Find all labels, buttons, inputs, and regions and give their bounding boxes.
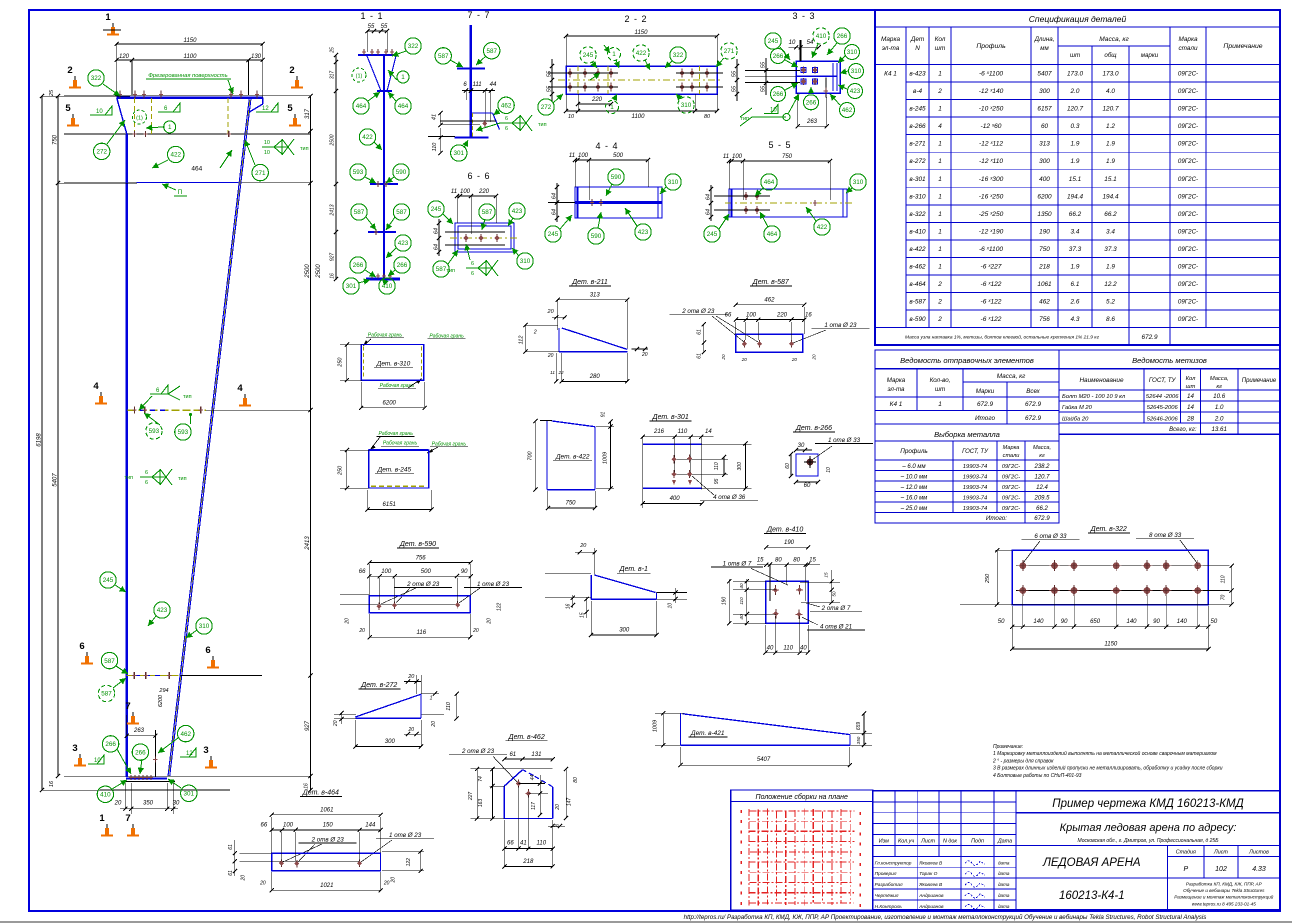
svg-text:19903-74: 19903-74 xyxy=(963,464,988,470)
svg-text:1.9: 1.9 xyxy=(1106,141,1115,148)
svg-text:245: 245 xyxy=(583,52,594,59)
svg-text:-6 ˣ122: -6 ˣ122 xyxy=(981,281,1002,288)
svg-text:40: 40 xyxy=(800,645,807,651)
svg-text:2 отв Ø 7: 2 отв Ø 7 xyxy=(821,605,851,612)
svg-text:300: 300 xyxy=(619,628,630,634)
svg-text:дата: дата xyxy=(998,860,1010,865)
svg-text:Масса,: Масса, xyxy=(1210,376,1229,382)
svg-text:в-271: в-271 xyxy=(909,141,926,148)
svg-text:12: 12 xyxy=(186,751,193,757)
svg-text:1 отв Ø 7: 1 отв Ø 7 xyxy=(723,561,752,568)
svg-text:Примечание: Примечание xyxy=(1223,43,1262,50)
svg-text:1150: 1150 xyxy=(1104,641,1118,647)
svg-text:64: 64 xyxy=(706,209,712,215)
svg-text:54: 54 xyxy=(807,40,814,46)
svg-text:300: 300 xyxy=(737,462,743,471)
svg-text:122: 122 xyxy=(497,603,503,612)
svg-text:462: 462 xyxy=(842,107,853,114)
svg-text:15.1: 15.1 xyxy=(1104,176,1117,183)
svg-text:6: 6 xyxy=(505,126,508,132)
svg-text:422: 422 xyxy=(170,152,181,159)
svg-text:20: 20 xyxy=(811,354,816,361)
svg-text:6 отв Ø 33: 6 отв Ø 33 xyxy=(1034,533,1067,540)
svg-text:3 В размерах длинных изделий: 3 В размерах длинных изделий пропуски не… xyxy=(993,765,1223,772)
svg-text:1: 1 xyxy=(938,228,942,235)
svg-text:Рабочая грань: Рабочая грань xyxy=(368,332,403,338)
svg-text:Рабочая грань: Рабочая грань xyxy=(432,441,467,447)
svg-text:3: 3 xyxy=(72,743,77,754)
svg-text:131: 131 xyxy=(531,752,541,758)
svg-text:310: 310 xyxy=(520,258,531,265)
svg-text:20: 20 xyxy=(114,801,122,807)
svg-text:317: 317 xyxy=(330,71,336,80)
svg-text:6198: 6198 xyxy=(37,433,43,447)
svg-text:Дет. в-322: Дет. в-322 xyxy=(1090,526,1127,533)
svg-text:216: 216 xyxy=(653,429,665,435)
svg-text:Выборка металла: Выборка металла xyxy=(934,430,1000,439)
svg-text:6151: 6151 xyxy=(383,502,396,508)
svg-text:310: 310 xyxy=(681,102,692,109)
svg-text:Крытая ледовая арена по адресу: Крытая ледовая арена по адресу: xyxy=(1060,822,1237,834)
svg-text:2500: 2500 xyxy=(330,134,336,146)
svg-text:66.2: 66.2 xyxy=(1104,211,1117,218)
svg-text:1: 1 xyxy=(430,696,433,702)
svg-text:ГОСТ, ТУ: ГОСТ, ТУ xyxy=(1149,377,1177,384)
svg-text:322: 322 xyxy=(408,43,419,50)
svg-text:15: 15 xyxy=(757,558,764,564)
svg-text:66: 66 xyxy=(359,569,366,575)
svg-text:2 отв Ø 23: 2 отв Ø 23 xyxy=(681,308,715,315)
svg-text:110: 110 xyxy=(678,429,688,435)
svg-text:310: 310 xyxy=(668,179,679,186)
svg-text:66: 66 xyxy=(261,823,268,829)
svg-text:1 отв Ø 23: 1 отв Ø 23 xyxy=(824,322,857,329)
svg-text:09Г2С-: 09Г2С- xyxy=(1002,485,1020,491)
svg-text:(1): (1) xyxy=(136,116,143,122)
svg-text:266: 266 xyxy=(773,53,784,60)
svg-text:310: 310 xyxy=(851,68,862,75)
svg-text:3.4: 3.4 xyxy=(1106,228,1115,235)
svg-text:25: 25 xyxy=(330,47,336,54)
svg-text:1: 1 xyxy=(99,813,105,824)
svg-text:44: 44 xyxy=(530,775,536,781)
svg-text:Гл.конструктор: Гл.конструктор xyxy=(875,860,912,866)
svg-text:310: 310 xyxy=(853,179,864,186)
svg-text:587: 587 xyxy=(354,209,365,216)
svg-text:-12 ˣ112: -12 ˣ112 xyxy=(979,141,1003,148)
svg-text:100: 100 xyxy=(283,823,294,829)
svg-text:55: 55 xyxy=(547,70,553,77)
svg-text:20: 20 xyxy=(407,674,415,680)
svg-text:2500: 2500 xyxy=(305,264,311,279)
svg-text:Спецификация деталей: Спецификация деталей xyxy=(1029,14,1127,24)
svg-text:422: 422 xyxy=(636,50,647,57)
svg-text:16: 16 xyxy=(565,604,571,610)
svg-text:Пример чертежа КМД 160213-КМД: Пример чертежа КМД 160213-КМД xyxy=(1052,798,1243,810)
svg-text:Стадия: Стадия xyxy=(1176,850,1196,856)
svg-text:Лист: Лист xyxy=(920,839,935,845)
svg-text:6: 6 xyxy=(471,271,474,277)
svg-text:300: 300 xyxy=(385,739,396,745)
svg-text:тип: тип xyxy=(300,146,309,152)
svg-text:20: 20 xyxy=(240,875,246,882)
svg-text:Разработал: Разработал xyxy=(875,882,903,888)
svg-text:22: 22 xyxy=(557,370,564,375)
svg-text:Масса, кг: Масса, кг xyxy=(1099,36,1129,43)
svg-text:2 отв Ø 23: 2 отв Ø 23 xyxy=(406,581,440,588)
svg-text:64: 64 xyxy=(706,194,712,200)
svg-text:116: 116 xyxy=(417,630,427,636)
svg-text:10: 10 xyxy=(789,40,796,46)
svg-text:6: 6 xyxy=(145,480,148,486)
svg-text:110: 110 xyxy=(739,597,744,605)
svg-text:Итого:: Итого: xyxy=(986,515,1007,522)
svg-text:266: 266 xyxy=(806,100,817,107)
svg-text:250: 250 xyxy=(338,357,344,368)
svg-text:Марка: Марка xyxy=(881,36,901,43)
svg-text:П: П xyxy=(178,189,183,196)
svg-text:3: 3 xyxy=(203,745,208,756)
svg-text:40: 40 xyxy=(739,583,744,589)
svg-text:10: 10 xyxy=(826,467,832,473)
svg-text:Дет. в-310: Дет. в-310 xyxy=(376,360,411,367)
svg-text:Примечание:: Примечание: xyxy=(993,744,1024,750)
svg-text:2: 2 xyxy=(937,316,942,323)
svg-text:7 - 7: 7 - 7 xyxy=(467,10,490,20)
svg-text:1: 1 xyxy=(612,51,616,58)
svg-text:в-266: в-266 xyxy=(909,123,926,130)
svg-text:5407: 5407 xyxy=(53,473,59,487)
svg-text:1100: 1100 xyxy=(184,54,198,60)
svg-text:750: 750 xyxy=(782,154,793,160)
svg-text:756: 756 xyxy=(1039,316,1050,323)
svg-text:шт: шт xyxy=(935,386,945,393)
svg-text:09Г2С-: 09Г2С- xyxy=(1178,211,1198,218)
svg-text:Дет. в-301: Дет. в-301 xyxy=(652,414,689,421)
svg-text:1150: 1150 xyxy=(184,38,198,44)
svg-text:110: 110 xyxy=(446,701,452,711)
svg-text:2413: 2413 xyxy=(330,204,336,216)
svg-text:11: 11 xyxy=(723,154,729,160)
svg-text:1: 1 xyxy=(168,124,172,131)
svg-text:590: 590 xyxy=(591,233,602,240)
svg-text:672.9: 672.9 xyxy=(1025,401,1041,408)
svg-text:Рабочая грань: Рабочая грань xyxy=(380,383,415,389)
svg-text:Кол: Кол xyxy=(935,36,946,43)
svg-text:в-464: в-464 xyxy=(909,281,926,288)
svg-text:64: 64 xyxy=(434,244,440,250)
svg-text:927: 927 xyxy=(330,253,336,262)
svg-text:20: 20 xyxy=(383,881,390,887)
svg-text:1021: 1021 xyxy=(320,883,333,889)
svg-text:927: 927 xyxy=(305,720,311,731)
svg-text:10: 10 xyxy=(94,758,101,764)
svg-text:1: 1 xyxy=(938,264,942,271)
svg-text:2: 2 xyxy=(937,299,942,306)
svg-text:Кол.уч: Кол.уч xyxy=(898,839,914,845)
svg-text:5.2: 5.2 xyxy=(1106,299,1115,306)
svg-text:5: 5 xyxy=(287,103,293,114)
svg-text:09Г2С-: 09Г2С- xyxy=(1178,141,1198,148)
svg-text:120: 120 xyxy=(119,54,130,60)
svg-text:120.7: 120.7 xyxy=(1034,475,1050,481)
svg-text:Тарак О: Тарак О xyxy=(919,871,937,877)
svg-text:218: 218 xyxy=(1038,264,1050,271)
svg-text:Фрезерованная поверхность: Фрезерованная поверхность xyxy=(148,73,227,79)
svg-text:271: 271 xyxy=(255,170,266,177)
svg-text:700: 700 xyxy=(528,450,534,460)
svg-text:1: 1 xyxy=(401,74,405,81)
svg-text:1 отв Ø 23: 1 отв Ø 23 xyxy=(477,581,510,588)
svg-text:Ведомость метизов: Ведомость метизов xyxy=(1132,356,1207,365)
svg-text:190: 190 xyxy=(784,540,795,546)
svg-text:Р: Р xyxy=(1183,866,1188,873)
svg-text:Марка: Марка xyxy=(887,377,906,384)
svg-text:650: 650 xyxy=(1090,619,1101,625)
svg-text:09Г2С-: 09Г2С- xyxy=(1178,246,1198,253)
svg-text:120.7: 120.7 xyxy=(1067,106,1083,113)
svg-text:64: 64 xyxy=(552,209,558,215)
svg-text:322: 322 xyxy=(91,75,102,82)
svg-text:95: 95 xyxy=(714,478,720,484)
svg-text:10: 10 xyxy=(770,108,777,114)
svg-text:111: 111 xyxy=(472,82,481,88)
svg-text:4 отв Ø 21: 4 отв Ø 21 xyxy=(820,623,852,630)
svg-text:294: 294 xyxy=(158,688,168,694)
svg-text:590: 590 xyxy=(611,174,622,181)
svg-text:2: 2 xyxy=(533,330,537,336)
svg-text:6157: 6157 xyxy=(1037,106,1052,113)
svg-text:11: 11 xyxy=(451,189,457,195)
svg-text:20: 20 xyxy=(547,353,554,359)
svg-text:Марка: Марка xyxy=(1178,36,1198,43)
svg-text:266: 266 xyxy=(773,91,784,98)
svg-text:общ: общ xyxy=(1104,52,1117,59)
svg-text:4: 4 xyxy=(237,383,243,394)
svg-text:117: 117 xyxy=(531,802,537,810)
svg-text:Проверил: Проверил xyxy=(875,871,897,877)
svg-text:100: 100 xyxy=(381,569,392,575)
svg-text:1.0: 1.0 xyxy=(1215,404,1224,411)
svg-text:50: 50 xyxy=(998,619,1005,625)
svg-text:66.2: 66.2 xyxy=(1069,211,1082,218)
svg-text:Всех: Всех xyxy=(1026,388,1040,395)
svg-text:587: 587 xyxy=(438,53,449,60)
svg-text:2 ° - размеры для справок: 2 ° - размеры для справок xyxy=(992,758,1054,764)
svg-text:410: 410 xyxy=(100,792,111,799)
svg-text:6200: 6200 xyxy=(383,400,397,406)
svg-text:кг: кг xyxy=(1216,384,1222,390)
svg-text:5: 5 xyxy=(65,103,71,114)
svg-text:1: 1 xyxy=(938,106,942,113)
svg-text:160213-К4-1: 160213-К4-1 xyxy=(1059,890,1125,902)
svg-text:Кол: Кол xyxy=(1186,376,1197,382)
svg-text:-12 ˣ190: -12 ˣ190 xyxy=(979,228,1004,235)
svg-text:дата: дата xyxy=(998,882,1010,887)
svg-text:1.9: 1.9 xyxy=(1071,158,1080,165)
svg-text:19903-74: 19903-74 xyxy=(963,485,988,491)
svg-text:6 - 6: 6 - 6 xyxy=(467,171,490,181)
svg-text:194.4: 194.4 xyxy=(1067,193,1083,200)
svg-text:220: 220 xyxy=(776,312,788,318)
svg-text:80: 80 xyxy=(793,558,800,564)
svg-text:Дет. в-587: Дет. в-587 xyxy=(752,279,790,286)
svg-text:-6 ˣ1100: -6 ˣ1100 xyxy=(979,246,1003,253)
svg-text:140: 140 xyxy=(1126,619,1137,625)
svg-text:423: 423 xyxy=(157,607,168,614)
svg-text:593: 593 xyxy=(353,169,364,176)
svg-text:266: 266 xyxy=(353,262,364,269)
svg-text:6200: 6200 xyxy=(1037,193,1052,200)
svg-text:587: 587 xyxy=(104,658,115,665)
svg-text:Дет. в-462: Дет. в-462 xyxy=(508,734,545,741)
svg-text:140: 140 xyxy=(1033,619,1044,625)
svg-text:-6 ˣ1100: -6 ˣ1100 xyxy=(979,71,1003,78)
svg-text:20: 20 xyxy=(344,618,350,625)
svg-text:1: 1 xyxy=(938,211,942,218)
svg-text:Дет. в-421: Дет. в-421 xyxy=(690,730,725,737)
svg-text:173.0: 173.0 xyxy=(1103,71,1119,78)
svg-text:90: 90 xyxy=(1061,619,1068,625)
svg-text:1: 1 xyxy=(938,71,942,78)
svg-text:2: 2 xyxy=(67,65,72,76)
svg-text:423: 423 xyxy=(398,240,409,247)
svg-text:423: 423 xyxy=(512,208,523,215)
svg-text:1.9: 1.9 xyxy=(1071,264,1080,271)
svg-text:Длина,: Длина, xyxy=(1034,36,1055,43)
svg-text:шт: шт xyxy=(935,45,946,52)
svg-text:Обучение и вебинары Tekla Stru: Обучение и вебинары Tekla Structures xyxy=(1183,888,1265,893)
svg-text:Лист: Лист xyxy=(1213,850,1228,856)
svg-text:Яковлев В: Яковлев В xyxy=(918,860,943,866)
svg-text:09Г2С-: 09Г2С- xyxy=(1002,475,1020,481)
svg-text:50: 50 xyxy=(831,591,836,597)
svg-text:672.9: 672.9 xyxy=(977,401,993,408)
svg-text:Дет: Дет xyxy=(910,36,925,43)
svg-text:190: 190 xyxy=(1039,228,1050,235)
svg-text:20: 20 xyxy=(641,352,648,358)
svg-text:09Г2С-: 09Г2С- xyxy=(1178,158,1198,165)
svg-text:60: 60 xyxy=(804,483,811,489)
svg-text:20: 20 xyxy=(408,727,415,733)
svg-text:37.3: 37.3 xyxy=(1069,246,1082,253)
svg-text:220: 220 xyxy=(591,97,603,103)
svg-text:350: 350 xyxy=(856,736,861,744)
svg-text:1009: 1009 xyxy=(603,452,609,464)
svg-text:Дата: Дата xyxy=(997,839,1012,845)
svg-text:100: 100 xyxy=(578,153,589,159)
svg-text:2500: 2500 xyxy=(316,264,322,279)
svg-text:52646-2006: 52646-2006 xyxy=(1147,416,1179,422)
svg-text:Дет. в-422: Дет. в-422 xyxy=(555,453,590,460)
svg-text:Профиль: Профиль xyxy=(976,43,1006,50)
svg-text:20: 20 xyxy=(431,721,437,728)
svg-text:-12 ˣ110: -12 ˣ110 xyxy=(979,158,1003,165)
svg-text:37.3: 37.3 xyxy=(1104,246,1117,253)
svg-text:50: 50 xyxy=(1211,619,1218,625)
svg-text:1 отв Ø 23: 1 отв Ø 23 xyxy=(389,832,422,839)
svg-text:245: 245 xyxy=(431,206,442,213)
svg-text:6: 6 xyxy=(79,641,84,652)
svg-text:266: 266 xyxy=(105,741,116,748)
svg-text:09Г2С-: 09Г2С- xyxy=(1178,316,1198,323)
svg-text:Итого: Итого xyxy=(975,415,995,422)
svg-text:эл-та: эл-та xyxy=(882,45,900,52)
svg-text:1: 1 xyxy=(938,193,942,200)
svg-text:16: 16 xyxy=(330,273,336,279)
svg-text:4 отв Ø 36: 4 отв Ø 36 xyxy=(713,494,746,501)
svg-text:422: 422 xyxy=(362,134,373,141)
svg-text:Примечание: Примечание xyxy=(1242,378,1277,384)
svg-text:15.1: 15.1 xyxy=(1069,176,1082,183)
svg-text:64: 64 xyxy=(552,193,558,199)
svg-text:-12 ˣ140: -12 ˣ140 xyxy=(979,88,1004,95)
svg-text:Андрианов: Андрианов xyxy=(918,893,944,899)
svg-text:шт: шт xyxy=(1070,52,1080,59)
svg-text:593: 593 xyxy=(178,429,189,436)
svg-text:61: 61 xyxy=(509,752,516,758)
svg-text:11: 11 xyxy=(550,370,555,375)
svg-text:14: 14 xyxy=(705,429,712,435)
svg-text:Н.Контроль: Н.Контроль xyxy=(875,904,903,910)
svg-text:13.61: 13.61 xyxy=(1211,426,1226,433)
svg-text:-10 ˣ250: -10 ˣ250 xyxy=(979,106,1004,113)
svg-text:91: 91 xyxy=(601,412,607,418)
svg-text:Ведомость отправочных элементо: Ведомость отправочных элементов xyxy=(900,356,1034,365)
svg-text:мм: мм xyxy=(1040,45,1049,52)
svg-text:271: 271 xyxy=(724,48,735,55)
svg-text:4.0: 4.0 xyxy=(1106,88,1115,95)
svg-text:Дет. в-245: Дет. в-245 xyxy=(377,466,412,473)
svg-text:15: 15 xyxy=(809,558,816,564)
svg-text:4.3: 4.3 xyxy=(1071,316,1080,323)
svg-text:6.1: 6.1 xyxy=(1071,281,1080,288)
svg-text:2 отв Ø 23: 2 отв Ø 23 xyxy=(311,837,345,844)
svg-text:09Г2С-: 09Г2С- xyxy=(1178,299,1198,306)
svg-text:Всего, кг:: Всего, кг: xyxy=(1169,427,1197,433)
svg-text:в-301: в-301 xyxy=(909,176,926,183)
svg-text:194.4: 194.4 xyxy=(1103,193,1119,200)
svg-text:100: 100 xyxy=(746,312,757,318)
svg-text:09Г2С-: 09Г2С- xyxy=(1178,281,1198,288)
svg-text:263: 263 xyxy=(806,119,818,125)
svg-text:80: 80 xyxy=(573,777,579,783)
svg-text:10: 10 xyxy=(568,114,575,120)
svg-text:09Г2С-: 09Г2С- xyxy=(1178,193,1198,200)
svg-text:09Г2С-: 09Г2С- xyxy=(1002,496,1020,502)
svg-text:147: 147 xyxy=(567,798,573,807)
svg-text:40: 40 xyxy=(739,614,744,620)
svg-text:09Г2С-: 09Г2С- xyxy=(1178,228,1198,235)
svg-text:09Г2С-: 09Г2С- xyxy=(1178,123,1198,130)
svg-text:464: 464 xyxy=(356,103,367,110)
svg-text:64: 64 xyxy=(434,228,440,234)
svg-text:173.0: 173.0 xyxy=(1067,71,1083,78)
svg-text:-6 ˣ122: -6 ˣ122 xyxy=(981,316,1002,323)
svg-text:66.2: 66.2 xyxy=(1036,506,1048,512)
svg-text:Рабочая грань: Рабочая грань xyxy=(379,431,414,437)
svg-text:313: 313 xyxy=(590,293,601,299)
svg-text:0.3: 0.3 xyxy=(1071,123,1080,130)
svg-text:в-322: в-322 xyxy=(909,211,926,218)
svg-text:144: 144 xyxy=(365,823,376,829)
svg-text:52645-2006: 52645-2006 xyxy=(1147,405,1179,411)
svg-text:в-423: в-423 xyxy=(909,71,926,78)
svg-text:http://tepros.ru/ Разработка: http://tepros.ru/ Разработка КП, КМД, КЖ… xyxy=(684,914,1207,921)
svg-text:6: 6 xyxy=(505,116,508,122)
svg-text:110: 110 xyxy=(714,462,720,470)
svg-text:– 10.0 мм: – 10.0 мм xyxy=(900,475,928,481)
